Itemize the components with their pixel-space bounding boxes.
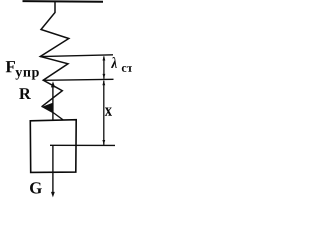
spring end coil (filled triangle) xyxy=(42,103,52,112)
top tick line (natural length level) xyxy=(40,55,113,57)
x dimension arrow (double headed) xyxy=(103,81,105,145)
R arrow (spring reaction, up) xyxy=(52,84,54,120)
spring (zigzag from ceiling to block) xyxy=(40,2,69,107)
label lambda_st xyxy=(111,57,117,68)
spring last segment to block xyxy=(52,112,63,120)
ceiling xyxy=(23,0,104,3)
label F_upr xyxy=(6,61,15,72)
bottom tick line (static equilibrium level) xyxy=(43,79,113,80)
label R xyxy=(19,88,31,99)
lambda_st dimension arrow (double headed) xyxy=(103,57,105,79)
label G xyxy=(30,182,42,193)
block (mass) xyxy=(30,120,76,173)
x reference line from block centre xyxy=(50,144,115,146)
G arrow (weight, down) xyxy=(52,145,54,193)
label x xyxy=(105,107,112,115)
